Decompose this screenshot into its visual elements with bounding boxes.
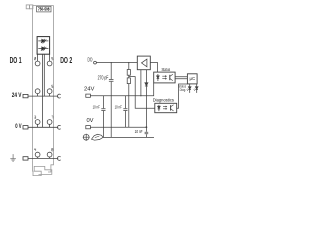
svg-text:DO 1: DO 1 [10,56,22,65]
svg-text:Diag.: Diag. [180,88,186,92]
svg-text:0V: 0V [87,118,94,124]
svg-text:10 nF: 10 nF [135,129,143,134]
svg-text:μC: μC [190,76,196,81]
svg-text:24V: 24V [84,87,95,93]
svg-text:DO 2: DO 2 [60,56,72,65]
svg-text:DO: DO [88,58,93,64]
svg-text:750-508: 750-508 [38,7,50,12]
svg-text:10 nF: 10 nF [115,104,122,109]
svg-text:10 nF: 10 nF [93,104,100,109]
svg-text:Diagnostics: Diagnostics [153,98,175,103]
svg-text:270 pF: 270 pF [98,75,109,81]
svg-text:24 V: 24 V [12,92,22,99]
svg-text:0 V: 0 V [15,123,22,130]
svg-text:Status: Status [162,67,171,72]
